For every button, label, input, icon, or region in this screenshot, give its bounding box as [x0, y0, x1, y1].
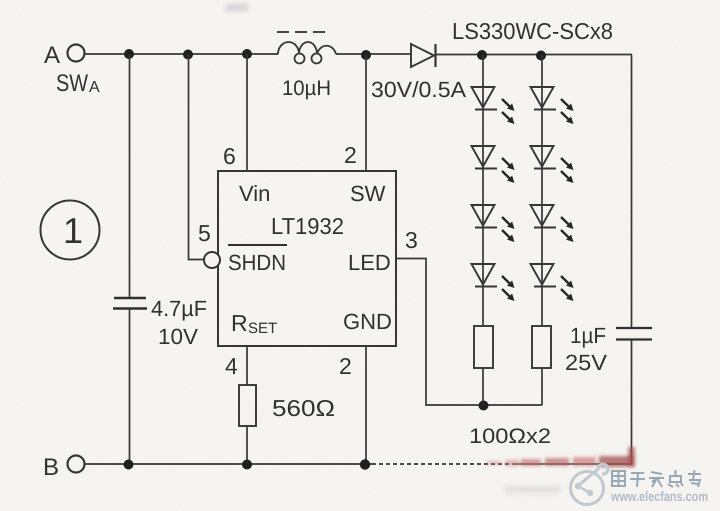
wire LED column 2: [541, 55, 543, 326]
watermark logo elecfans: [571, 464, 608, 504]
dashed line above L1: [277, 31, 325, 33]
figure number 1: [41, 201, 100, 260]
wire R2 bottom: [482, 368, 484, 405]
node bottom junction R1: [242, 460, 252, 470]
capacitor C2 plates: [616, 328, 652, 340]
node junction 1: [124, 49, 134, 59]
LED D8: [472, 264, 515, 301]
terminal B: [43, 454, 85, 481]
LED D9: [531, 264, 574, 301]
wire R3 bottom: [541, 368, 543, 405]
label RSET: [231, 310, 277, 337]
scan smudges: [226, 4, 560, 493]
LED D2: [472, 87, 515, 124]
wire pin3 LED net: [396, 259, 542, 406]
node R junction: [479, 401, 489, 411]
resistor R1 560Ω: [239, 385, 256, 426]
LED D7: [531, 205, 574, 242]
node junction 3: [242, 49, 252, 59]
node bottom junction GND: [360, 459, 370, 469]
watermark text 电子发烧友: [612, 470, 701, 487]
inductor L1 10µH: [278, 42, 336, 64]
label SWA: [56, 70, 100, 97]
IC U1 LT1932: [218, 171, 396, 346]
node SW junction: [361, 50, 371, 60]
LED D6: [472, 205, 515, 242]
LED D4: [472, 146, 515, 183]
node LED column 1 junction: [477, 50, 487, 60]
label C1 4.7µF 10V: [151, 296, 207, 349]
watermark red smudge: [487, 447, 635, 467]
wire C1 branch: [129, 54, 131, 464]
wire GND pin: [365, 346, 367, 464]
resistor R3 100Ω column 2: [532, 326, 551, 368]
node junction 2: [183, 50, 193, 60]
wire bottom bus B: [85, 463, 632, 465]
diode D1: [411, 44, 436, 67]
wire top bus A: [85, 53, 632, 56]
LED D5: [531, 146, 574, 183]
wire pin4: [246, 346, 248, 385]
wire pin6: [246, 54, 248, 171]
wire SHDN branch: [189, 55, 205, 260]
LED D3: [531, 87, 574, 124]
resistor R2 100Ω column 1: [474, 326, 493, 368]
label SHDN with overline: [228, 245, 287, 275]
node LED column 2 junction: [536, 51, 546, 61]
label C2 1µF 25V: [565, 323, 607, 375]
capacitor C1 plates: [113, 298, 147, 309]
node bottom junction C1: [124, 460, 134, 470]
wire pin2 SW: [365, 55, 367, 171]
wire LED column 1: [482, 55, 484, 326]
SHDN pin circle: [204, 252, 220, 268]
wire right side: [631, 55, 633, 465]
wire R1 bottom: [246, 426, 248, 464]
terminal A: [44, 42, 85, 69]
